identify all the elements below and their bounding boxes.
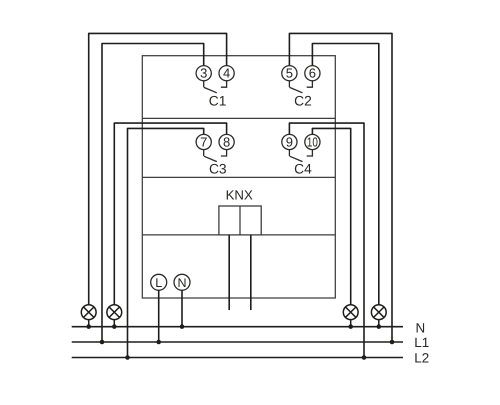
svg-text:C3: C3: [209, 162, 227, 177]
svg-text:7: 7: [200, 134, 207, 149]
svg-text:9: 9: [286, 134, 293, 149]
relay contact C1: [204, 81, 227, 93]
terminal 4: [219, 66, 234, 81]
junction terminal 7 / L2: [125, 355, 130, 360]
KNX bus wire left: [228, 235, 230, 310]
svg-text:KNX: KNX: [226, 187, 253, 202]
svg-text:6: 6: [309, 66, 316, 81]
terminal L: [151, 274, 167, 290]
wire terminal 3 to L1: [102, 44, 204, 343]
lamp E2: [107, 305, 122, 327]
svg-text:L1: L1: [414, 335, 429, 350]
lamp E1: [81, 305, 96, 327]
label C1: [209, 93, 227, 108]
wire terminal 9 to L2: [289, 123, 364, 357]
svg-text:C4: C4: [294, 162, 312, 177]
divider line 2: [142, 176, 335, 178]
label C3: [209, 162, 227, 177]
svg-text:8: 8: [223, 134, 230, 149]
terminal 5: [282, 66, 297, 81]
wire terminal 10 to lamp E3: [312, 128, 350, 305]
relay contact C2: [289, 81, 312, 93]
net line L1: [72, 341, 403, 343]
junction lamp E3 / N: [348, 324, 353, 329]
relay contact C4: [289, 150, 312, 162]
junction terminal L / L1: [156, 340, 161, 345]
label N: [416, 320, 426, 335]
lamp E3: [343, 305, 358, 327]
label C4: [294, 162, 312, 177]
junction lamp E4 / N: [377, 324, 382, 329]
divider line 3: [142, 234, 335, 236]
junction terminal 9 / L2: [362, 355, 367, 360]
terminal 9: [282, 134, 297, 149]
device outline box: [142, 56, 335, 298]
label L1: [414, 335, 429, 350]
terminal 6: [305, 66, 320, 81]
wire terminal 8 to lamp E2: [114, 123, 226, 305]
svg-text:C2: C2: [294, 93, 312, 108]
junction lamp E1 / N: [86, 324, 91, 329]
svg-text:4: 4: [223, 66, 230, 81]
wire terminal 7 to L2: [128, 128, 204, 357]
lamp E4: [371, 305, 386, 327]
junction terminal 5 / L1: [390, 340, 395, 345]
junction terminal N / N: [180, 324, 185, 329]
terminal 10: [305, 134, 320, 149]
wire terminal 4 to lamp E1: [89, 33, 227, 305]
net line N: [72, 326, 403, 328]
wire terminal 5 to L1: [289, 33, 392, 342]
junction lamp E2 / N: [112, 324, 117, 329]
svg-text:5: 5: [286, 66, 293, 81]
svg-text:3: 3: [200, 66, 207, 81]
net line L2: [72, 357, 403, 359]
label KNX: [226, 187, 253, 202]
junction terminal 3 / L1: [100, 340, 105, 345]
label L2: [414, 351, 429, 366]
wire L to L1: [158, 290, 160, 342]
label C2: [294, 93, 312, 108]
svg-text:10: 10: [307, 134, 318, 149]
svg-text:N: N: [177, 276, 186, 290]
terminal 8: [219, 134, 234, 149]
wire terminal 6 to lamp E4: [312, 44, 378, 305]
svg-text:N: N: [416, 320, 426, 335]
KNX bus wire right: [250, 235, 252, 310]
svg-text:L: L: [155, 276, 162, 290]
KNX bus connector: [219, 206, 261, 235]
divider line 1: [142, 117, 335, 119]
terminal 3: [196, 66, 211, 81]
terminal N: [174, 274, 190, 290]
svg-text:L2: L2: [414, 351, 429, 366]
wire N to N line: [181, 290, 183, 326]
svg-text:C1: C1: [209, 93, 227, 108]
relay contact C3: [204, 150, 227, 162]
terminal 7: [196, 134, 211, 149]
